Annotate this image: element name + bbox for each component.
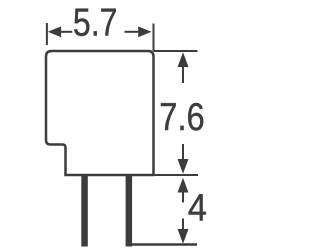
- extension line bottom (lead tip level): [126, 243, 197, 246]
- svg-text:7.6: 7.6: [159, 96, 204, 139]
- extension line middle (body bottom edge extended right): [155, 174, 198, 176]
- svg-text:5.7: 5.7: [73, 2, 118, 45]
- dimension 5.7 right tick: [153, 24, 155, 52]
- extension line top (body top edge extended right): [154, 50, 198, 52]
- dimension 4 down arrow: [182, 219, 184, 233]
- dimension 5.7 right arrow: [138, 26, 151, 37]
- lead 1: [81, 176, 88, 247]
- dimension 7.6 up arrow: [178, 52, 189, 67]
- svg-text:4: 4: [188, 186, 207, 229]
- dimension 4 up arrow: [178, 178, 189, 193]
- dimension 5.7 left arrow: [48, 26, 61, 37]
- dimension 5.7 left tick: [46, 23, 48, 45]
- lead 2: [126, 176, 133, 247]
- component body outline: [46, 51, 154, 175]
- dimension 7.6 down arrow: [182, 144, 184, 161]
